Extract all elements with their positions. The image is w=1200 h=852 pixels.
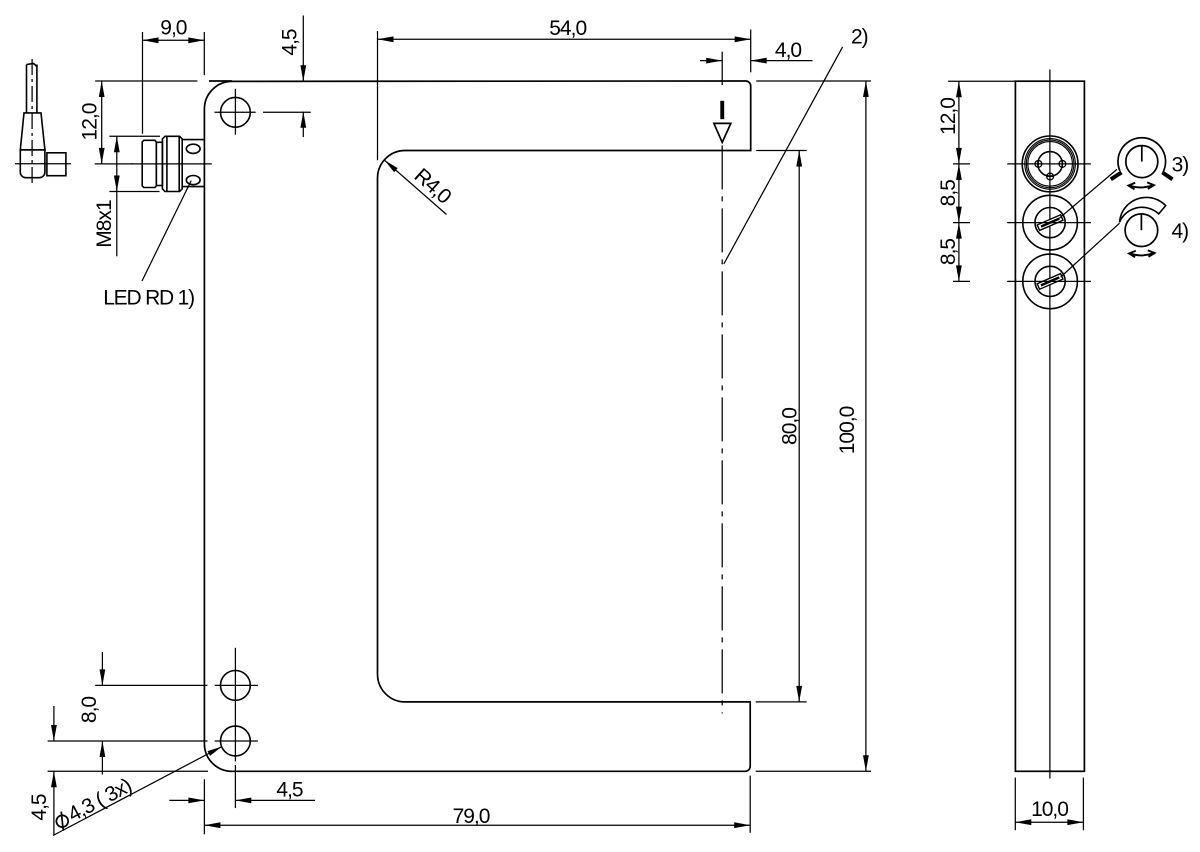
dim 4,5 bottom-left	[28, 706, 57, 835]
svg-text:4,0: 4,0	[775, 39, 802, 62]
LED RD window lower	[186, 176, 200, 185]
svg-text:4,5: 4,5	[28, 794, 51, 821]
dim 10,0 extension lines	[1015, 778, 1083, 831]
side top edge extension	[948, 80, 1015, 82]
side tick 8.5b	[953, 280, 970, 282]
side crosshair line 2	[1007, 222, 1091, 224]
cable plug boot	[20, 113, 45, 150]
svg-text:12,0: 12,0	[937, 98, 960, 135]
dim 80,0	[779, 151, 803, 702]
dim 54,0	[378, 17, 751, 42]
mounting hole top-left	[214, 89, 255, 135]
svg-text:8,0: 8,0	[78, 697, 101, 724]
svg-text:4): 4)	[1172, 220, 1189, 243]
svg-text:2): 2)	[851, 26, 868, 49]
dim 80,0 extension bottom	[756, 701, 807, 703]
label 2)	[851, 26, 868, 49]
dim 12,0 side	[937, 81, 962, 164]
label diameter 4,3 (3x)	[51, 774, 135, 833]
dim 9,0	[143, 17, 205, 44]
mounting hole bottom lower	[215, 726, 258, 756]
cable plug horizontal centerline	[15, 163, 71, 165]
cable plug vertical centerline	[31, 59, 33, 185]
label diameter 4,3 leader	[53, 747, 222, 836]
svg-text:M8x1: M8x1	[93, 200, 116, 248]
dim 100,0	[836, 81, 869, 771]
dim M8x1	[93, 136, 160, 256]
label 3)	[1172, 154, 1189, 177]
M8 connector cable-gland body	[142, 140, 156, 187]
svg-text:100,0: 100,0	[836, 406, 859, 454]
label 4)	[1172, 220, 1189, 243]
label LED RD 1) leader	[142, 181, 191, 281]
M8 connector thread	[162, 136, 182, 191]
side view vertical centerline	[1049, 70, 1051, 779]
dim 80,0 extension top	[756, 150, 807, 152]
svg-text:8,5: 8,5	[937, 180, 960, 207]
pot leader lower	[1061, 223, 1120, 277]
label R4,0 leader	[385, 160, 447, 214]
dim 9,0 extension lines	[143, 32, 205, 134]
dim 100,0 extension top	[756, 80, 871, 82]
svg-text:12,0: 12,0	[78, 103, 101, 140]
side view body	[1015, 81, 1084, 771]
fork sensor body outline (front view)	[204, 81, 750, 771]
dim 4,0	[700, 39, 813, 64]
dim 100,0 extension bottom	[756, 770, 871, 772]
hole pair vertical centerline	[234, 648, 236, 808]
knob 3 swing arrow	[1128, 182, 1154, 189]
dim 10,0	[1015, 798, 1083, 825]
potentiometer upper	[1023, 195, 1078, 250]
potentiometer lower	[1023, 254, 1078, 309]
cable plug nut	[47, 153, 66, 176]
dim 54,0 extension right	[750, 30, 752, 73]
svg-text:4,5: 4,5	[276, 779, 303, 802]
cable plug body	[20, 150, 45, 178]
knob 3 icon	[1111, 138, 1173, 180]
knob 4 swing arrow	[1129, 250, 1155, 257]
mounting hole bottom upper	[215, 671, 258, 701]
side tick 8.5a	[953, 222, 970, 224]
svg-text:9,0: 9,0	[160, 17, 187, 40]
svg-text:79,0: 79,0	[453, 805, 490, 828]
svg-text:LED RD 1): LED RD 1)	[103, 287, 194, 310]
dim 8,5 lower	[937, 223, 962, 282]
side crosshair line 1	[1007, 163, 1091, 165]
dim 79,0 extension left	[203, 779, 205, 834]
dim 4,0 extension	[721, 52, 723, 85]
optical axis centerline	[721, 145, 723, 713]
connector collar on housing	[182, 140, 204, 187]
beam direction arrow	[714, 101, 731, 143]
side crosshair line 3	[1007, 280, 1091, 282]
dim 79,0 extension right	[749, 776, 751, 833]
top edge extension line left	[95, 80, 197, 82]
cable plug cable	[27, 64, 37, 113]
dim 54,0 extension left	[377, 31, 379, 160]
knob 4 icon	[1120, 197, 1166, 246]
M8 connector neck	[156, 142, 162, 185]
svg-text:8,5: 8,5	[937, 239, 960, 266]
svg-text:3): 3)	[1172, 154, 1189, 177]
dim 4,5 bottom	[169, 779, 315, 804]
label 2) leader	[724, 47, 843, 264]
label LED RD 1)	[103, 287, 194, 310]
dim 4,5 top	[263, 16, 311, 138]
side M8 connector	[1022, 136, 1078, 192]
dim 8,0 extension lines	[48, 685, 208, 741]
dim 79,0	[204, 805, 750, 828]
dim 8,5 upper	[937, 164, 962, 223]
dim 12,0 left	[78, 81, 132, 164]
label R4,0	[410, 164, 456, 208]
LED window upper	[186, 144, 200, 153]
pot leader upper	[1059, 169, 1117, 218]
svg-text:10,0: 10,0	[1031, 798, 1068, 821]
svg-text:80,0: 80,0	[779, 408, 802, 445]
bottom edge extension left	[48, 770, 208, 772]
svg-text:54,0: 54,0	[549, 17, 586, 40]
side tick 12	[953, 163, 970, 165]
svg-text:4,5: 4,5	[279, 29, 302, 56]
connector centerline	[131, 163, 212, 165]
dim 8,0	[78, 652, 106, 775]
